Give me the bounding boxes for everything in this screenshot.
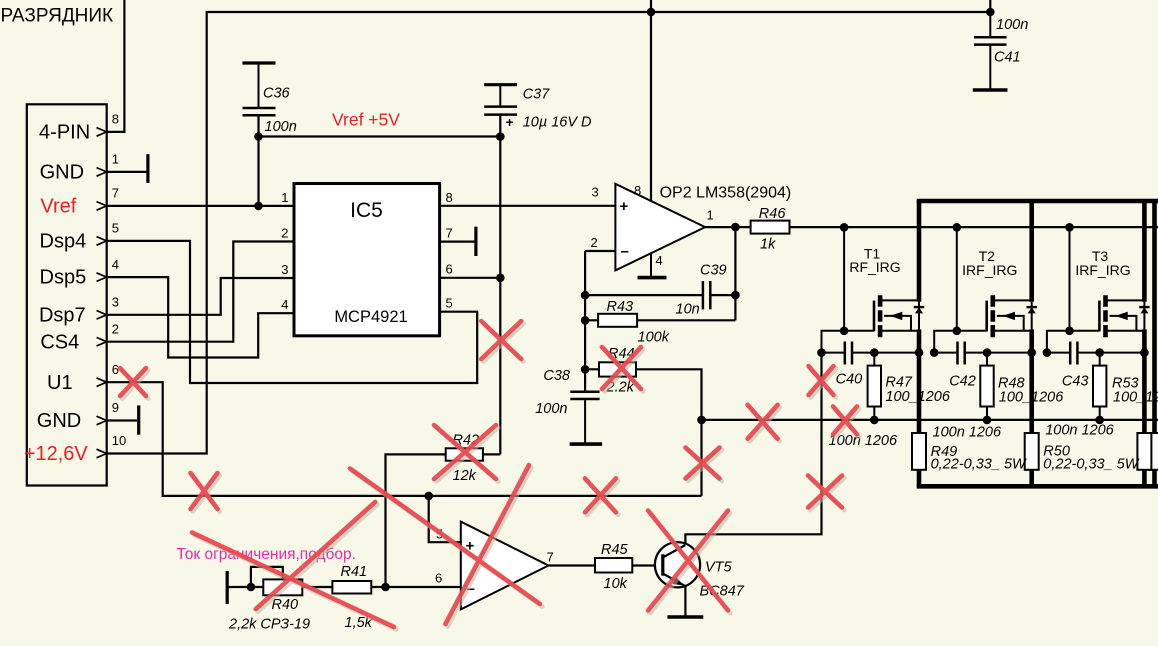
- wire GND pin1 stub: [107, 171, 147, 173]
- wire cap row left C40: [822, 352, 845, 354]
- pin arrow +12,6V: [97, 449, 107, 458]
- pin arrow 4-PIN: [97, 128, 107, 137]
- wire row 420 to output cells: [702, 419, 1158, 421]
- svg-text:10µ 16V D: 10µ 16V D: [523, 115, 592, 131]
- thick source bus bottom: [917, 484, 1158, 489]
- capacitor C38: [570, 392, 603, 444]
- svg-text:Vref: Vref: [40, 196, 76, 218]
- svg-text:100n: 100n: [996, 17, 1028, 33]
- svg-text:5: 5: [446, 296, 453, 311]
- thick bus vertical T3 upper: [1142, 201, 1147, 302]
- node gate lead junction T2: [953, 327, 962, 336]
- op-amp U2 (second half, crossed out) triangle: [461, 522, 549, 610]
- resistor R45 body: [595, 558, 632, 573]
- wire R42 right lead: [483, 453, 500, 455]
- pin arrow GND: [97, 416, 107, 425]
- svg-text:+12,6V: +12,6V: [24, 443, 89, 465]
- thick bus vertical T2 middle: [1029, 329, 1034, 433]
- svg-text:10k: 10k: [604, 576, 628, 592]
- svg-text:12k: 12k: [453, 468, 477, 484]
- thick bus vertical T1 middle: [917, 329, 922, 433]
- red X mark over transistor VT5: [648, 511, 728, 611]
- svg-text:1: 1: [707, 208, 714, 223]
- svg-text:Dsp5: Dsp5: [40, 267, 87, 289]
- wire R44 right to row 420: [636, 369, 702, 496]
- svg-text:4-PIN: 4-PIN: [39, 122, 90, 144]
- red X mark over wire row495 left: [191, 473, 218, 509]
- svg-text:GND: GND: [40, 162, 84, 184]
- node R43 left junction: [581, 316, 590, 325]
- wire R40 wiper loop: [251, 567, 283, 587]
- resistor R47 bottom lead: [873, 407, 875, 420]
- svg-text:+: +: [620, 198, 629, 215]
- svg-text:2: 2: [112, 321, 119, 336]
- svg-text:РАЗРЯДНИК: РАЗРЯДНИК: [1, 6, 114, 27]
- svg-text:C42: C42: [949, 374, 976, 390]
- wire gate lead left-down T3: [1047, 331, 1070, 353]
- wire drain lead T3: [1107, 299, 1145, 301]
- svg-text:C38: C38: [543, 368, 570, 384]
- wire body connection T2: [997, 316, 1024, 331]
- red X mark over resistor R42: [434, 425, 496, 479]
- resistor R53 top lead: [1099, 353, 1101, 366]
- red stroke over R40/R41 (ascending): [256, 502, 376, 609]
- node Vref / C36 junction: [254, 202, 263, 211]
- svg-text:CS4: CS4: [40, 331, 79, 353]
- node gate lead junction T1: [840, 327, 849, 336]
- transistor T2 channel bar: [990, 295, 995, 337]
- node U2 pin6 / R41 junction: [381, 583, 390, 592]
- svg-text:6: 6: [435, 571, 442, 586]
- svg-text:IC5: IC5: [350, 199, 383, 222]
- svg-text:C39: C39: [700, 263, 727, 279]
- wire U1 long route: [107, 382, 702, 496]
- node C39 right junction: [731, 291, 740, 300]
- svg-text:100n: 100n: [265, 119, 297, 135]
- wire cap row right C43: [1077, 352, 1144, 354]
- node R53 top junction: [1095, 348, 1104, 357]
- wire R44 left lead: [585, 368, 599, 370]
- svg-text:100n 1206: 100n 1206: [933, 425, 1002, 441]
- red X shadow: [750, 407, 780, 441]
- svg-text:1k: 1k: [760, 237, 776, 253]
- pin arrow Vref: [97, 202, 107, 211]
- node R47 bottom junction: [870, 416, 879, 425]
- wire Dsp5 to IC5 pin4: [107, 277, 294, 357]
- wire feedback column C38: [584, 251, 586, 392]
- thick bus vertical T3 middle: [1142, 329, 1147, 433]
- wire cap row right C40: [852, 352, 919, 354]
- red X mark over wire row420 right: [833, 406, 857, 434]
- svg-text:7: 7: [446, 225, 453, 240]
- svg-text:MCP4921: MCP4921: [334, 308, 407, 326]
- svg-text:100n: 100n: [535, 401, 567, 417]
- pin arrow Dsp4: [97, 237, 107, 246]
- pin arrow Dsp7: [97, 311, 107, 320]
- wire GND pin9 stub: [107, 419, 138, 421]
- capacitor C37: [484, 85, 517, 130]
- body diode T2 cathode bar: [1027, 306, 1037, 308]
- red X mark over wire riser 701: [686, 448, 720, 479]
- transistor T3 channel bar: [1103, 295, 1108, 337]
- node R44 left junction: [581, 365, 590, 374]
- red X mark over resistor R44: [602, 347, 641, 389]
- red X mark over U1 pin: [120, 368, 146, 396]
- thick bus vertical T2 lower: [1029, 470, 1034, 487]
- wire R40 left lead: [227, 586, 263, 588]
- ground OP2 pin4: [650, 253, 652, 276]
- resistor R42 body: [446, 448, 483, 460]
- resistor R49 body (power): [912, 433, 926, 470]
- resistor R47 body: [868, 366, 881, 407]
- wire cap row left C42: [934, 352, 957, 354]
- svg-text:C36: C36: [263, 86, 291, 102]
- wire Dsp4 to IC5 pin5: [107, 241, 478, 383]
- transistor T1 RF_IRG MOSFET gate plate: [873, 301, 876, 332]
- resistor R47 top lead: [873, 353, 875, 366]
- svg-text:R45: R45: [601, 542, 629, 558]
- red stroke over op-amp U2 (steep): [445, 465, 529, 624]
- svg-text:VT5: VT5: [705, 560, 733, 576]
- node C37 +5V junction: [496, 132, 505, 141]
- wire R43 left lead: [585, 319, 598, 321]
- connector J1 body: [27, 104, 107, 485]
- resistor R48 bottom lead: [986, 407, 988, 420]
- node source bus junction T3: [1140, 348, 1149, 357]
- svg-text:2: 2: [591, 235, 598, 250]
- red X shadow: [193, 476, 220, 512]
- node U2 pin5 tap junction: [424, 492, 433, 501]
- transistor T1 channel bar: [878, 295, 883, 337]
- wire top feed above C41 node: [989, 0, 991, 12]
- wire gate lead left-down T1: [822, 331, 845, 353]
- ground bar pin1: [146, 154, 149, 183]
- node C36 +5V junction: [254, 132, 263, 141]
- red X shadow: [810, 478, 844, 510]
- body diode T1 cathode bar: [914, 306, 924, 308]
- body arrow T2: [1003, 312, 1015, 320]
- VT5 emitter stroke: [663, 574, 686, 587]
- wire OP2 output to R46: [705, 226, 751, 228]
- svg-text:6: 6: [446, 262, 453, 277]
- capacitor C42 left plate: [956, 342, 959, 365]
- capacitor C39: [703, 281, 710, 309]
- body diode T1 triangle: [915, 307, 923, 313]
- wire IC5 pin8 to OP2 pin3: [440, 205, 616, 207]
- node R44/row420 junction: [697, 416, 706, 425]
- wire feedback node vertical C39/R43: [734, 227, 736, 320]
- transistor T1 gate branch wire: [843, 227, 845, 330]
- wire Vref +5V row C36 to C37: [259, 135, 501, 137]
- svg-text:+: +: [506, 114, 514, 130]
- red X shadow: [604, 350, 643, 392]
- svg-text:Dsp4: Dsp4: [40, 231, 87, 253]
- node R48 bottom junction: [983, 416, 992, 425]
- capacitor C41: [973, 12, 1008, 90]
- wire cap row right C42: [965, 352, 1032, 354]
- svg-text:2,2k СРЗ-19: 2,2k СРЗ-19: [228, 617, 310, 633]
- svg-text:GND: GND: [37, 410, 81, 432]
- wire drain lead T2: [994, 299, 1032, 301]
- body diode thin segment T2: [1031, 302, 1033, 330]
- svg-text:IRF_IRG: IRF_IRG: [962, 262, 1017, 278]
- svg-text:R40: R40: [272, 597, 299, 613]
- svg-text:8: 8: [112, 112, 119, 127]
- wire source lead T1: [881, 330, 919, 332]
- red X shadow: [688, 450, 722, 481]
- svg-text:U1: U1: [47, 372, 73, 394]
- node cap row left junction C40: [817, 348, 826, 357]
- wire OP2 pin2 to feedback column: [585, 250, 615, 252]
- svg-text:Dsp7: Dsp7: [39, 304, 86, 326]
- svg-text:R46: R46: [759, 206, 787, 222]
- svg-text:5: 5: [112, 221, 119, 236]
- wire drain lead T1: [881, 299, 919, 301]
- body diode thin segment T1: [918, 302, 920, 330]
- thick drain bus top: [917, 199, 1158, 204]
- svg-text:RF_IRG: RF_IRG: [849, 259, 900, 275]
- transistor VT5 BC847 circle: [655, 542, 700, 587]
- red stroke over op-amp U2 (descending): [350, 469, 540, 605]
- wire Vref vertical C37 down to R42: [499, 115, 501, 455]
- red X mark over wire VT5 riser upper: [809, 366, 834, 395]
- node source bus junction T1: [915, 348, 924, 357]
- red X shadow: [587, 481, 618, 515]
- svg-text:7: 7: [547, 550, 554, 565]
- ground bar OP2 pin4: [638, 276, 667, 280]
- op-amp IC5 MCP4921 body: [294, 184, 440, 336]
- node top rail / C41 junction: [986, 8, 995, 17]
- thick bus vertical right edge: [1152, 201, 1157, 486]
- resistor R44 body: [599, 362, 636, 376]
- thick bus vertical T2 upper: [1029, 201, 1034, 302]
- wire R41 to opamp U2 pin6: [371, 586, 461, 588]
- pin arrow Dsp5: [97, 273, 107, 282]
- resistor R40 body: [263, 579, 302, 595]
- pin arrow GND: [97, 168, 107, 177]
- wire VT5 collector to C40 node: [685, 353, 821, 545]
- svg-text:0,22-0,33_ 5W: 0,22-0,33_ 5W: [931, 456, 1027, 472]
- node source bus junction T2: [1027, 348, 1036, 357]
- node R48 top junction: [983, 348, 992, 357]
- svg-text:C43: C43: [1062, 374, 1089, 390]
- capacitor C43 left plate: [1069, 342, 1072, 365]
- svg-text:4: 4: [281, 297, 288, 312]
- wire source lead T2: [994, 330, 1032, 332]
- resistor R53 body: [1093, 366, 1106, 407]
- resistor R48 top lead: [986, 353, 988, 366]
- pin arrow U1: [97, 378, 107, 387]
- svg-text:1: 1: [112, 152, 119, 167]
- svg-text:3: 3: [592, 185, 599, 200]
- ground bar pin9: [137, 405, 140, 434]
- wire gate to plate T2: [957, 330, 987, 332]
- red X shadow: [436, 428, 498, 482]
- red X shadow: [122, 371, 148, 399]
- VT5 collector stroke: [663, 545, 686, 558]
- node gate rail junction T1: [840, 223, 849, 232]
- svg-text:C37: C37: [523, 87, 551, 103]
- node R47 top junction: [870, 348, 879, 357]
- svg-text:10: 10: [112, 433, 126, 448]
- red X mark over Vref vertical: [481, 321, 521, 359]
- svg-text:C40: C40: [836, 371, 863, 387]
- svg-text:8: 8: [634, 183, 641, 198]
- wire R45 to VT5 base: [632, 564, 663, 566]
- svg-text:3: 3: [281, 262, 288, 277]
- body arrow T1: [890, 312, 902, 320]
- thick bus vertical T3 lower: [1142, 470, 1147, 487]
- svg-text:100_12: 100_12: [1113, 390, 1158, 406]
- ground bar VT5 emitter: [667, 615, 703, 619]
- svg-text:1: 1: [281, 190, 288, 205]
- red X mark over wire row420: [748, 405, 778, 439]
- wire gate lead left-down T2: [934, 331, 957, 353]
- wire Vref row to IC5 pin1: [107, 205, 294, 207]
- wire C39 right lead: [710, 294, 735, 296]
- svg-text:100n 1206: 100n 1206: [1045, 422, 1114, 438]
- transistor T3 IRF_IRG MOSFET gate plate: [1098, 301, 1101, 332]
- transistor T3 gate branch wire: [1069, 227, 1071, 330]
- wire body connection T3: [1110, 316, 1137, 331]
- resistor R46 body: [751, 221, 790, 234]
- body diode thin segment T3: [1143, 302, 1145, 330]
- body diode T2 triangle: [1028, 307, 1036, 313]
- wire +12.6V rail (pin10 right, up, top rail to C41): [107, 12, 991, 454]
- node C39 left junction: [581, 291, 590, 300]
- red X mark over wire VT5 riser lower: [808, 476, 842, 508]
- resistor R50 body (power): [1025, 433, 1039, 470]
- resistor R48 body: [980, 366, 993, 407]
- body diode T3 cathode bar: [1139, 306, 1149, 308]
- transistor T2 IRF_IRG MOSFET gate plate: [985, 301, 988, 332]
- red X mark over wire row495 mid: [585, 478, 616, 512]
- wire source lead T3: [1107, 330, 1145, 332]
- VT5 base bar: [661, 554, 664, 576]
- svg-text:10n: 10n: [676, 302, 700, 318]
- red X shadow: [811, 369, 836, 398]
- wire 4-PIN pin8 riser: [107, 0, 125, 132]
- svg-text:4: 4: [112, 257, 119, 272]
- resistor R43 body: [598, 314, 637, 327]
- node R53 bottom junction: [1095, 416, 1104, 425]
- body diode T3 triangle: [1140, 307, 1148, 313]
- wire gate to plate T3: [1070, 330, 1100, 332]
- svg-text:2: 2: [281, 225, 288, 240]
- wire R40 to R41: [302, 586, 332, 588]
- svg-text:3: 3: [112, 295, 119, 310]
- svg-text:6: 6: [112, 362, 119, 377]
- svg-text:0,22-0,33_ 5W: 0,22-0,33_ 5W: [1043, 456, 1139, 472]
- wire cap row left C43: [1047, 352, 1070, 354]
- red X shadow: [484, 324, 524, 362]
- svg-text:C41: C41: [994, 50, 1021, 66]
- wire C39 left lead: [585, 294, 703, 296]
- node gate rail junction T3: [1065, 223, 1074, 232]
- svg-text:IRF_IRG: IRF_IRG: [1075, 262, 1130, 278]
- node cap row left junction C43: [1043, 348, 1052, 357]
- resistor R53 bottom lead: [1099, 407, 1101, 420]
- wire body connection T1: [884, 316, 911, 331]
- wire IC5 pin7 ground stub: [440, 241, 476, 243]
- wire R42 left lead and vertical to U2 pin6: [386, 454, 446, 587]
- capacitor C43 right plate: [1076, 342, 1079, 365]
- VT5 emitter arrow: [673, 577, 684, 586]
- wire VT5 emitter to ground: [684, 586, 686, 617]
- node OP2 out junction: [731, 223, 740, 232]
- node top rail / OP2 V+ junction: [647, 8, 656, 17]
- svg-text:100k: 100k: [638, 330, 670, 346]
- capacitor C36: [243, 63, 276, 115]
- svg-text:–: –: [621, 243, 629, 260]
- svg-text:7: 7: [112, 186, 119, 201]
- body arrow T3: [1115, 312, 1127, 320]
- red stroke shadows: [194, 468, 542, 630]
- node gate rail junction T2: [953, 223, 962, 232]
- svg-text:4: 4: [656, 253, 663, 268]
- resistor R52 body (clipped at edge): [1148, 433, 1158, 470]
- red X shadow: [650, 513, 730, 613]
- wire OP2 V+ pin8 riser to top rail: [650, 0, 652, 201]
- node gate lead junction T3: [1065, 327, 1074, 336]
- red X shadow: [835, 409, 859, 437]
- wire node A riser to opamp U2 pin5: [429, 496, 461, 542]
- wire R46 to gate rail: [790, 226, 1158, 228]
- op-amp OP2 triangle: [615, 184, 705, 271]
- node R40 wiper junction: [247, 583, 256, 592]
- wire R43 right lead: [637, 319, 735, 321]
- svg-text:100_1206: 100_1206: [999, 390, 1064, 406]
- svg-text:Vref +5V: Vref +5V: [332, 110, 400, 130]
- wire opamp U2 output to R45: [548, 564, 595, 566]
- thick bus vertical T1 lower: [917, 470, 922, 487]
- svg-text:100_1206: 100_1206: [885, 389, 950, 405]
- transistor T2 gate branch wire: [956, 227, 958, 330]
- wire gate to plate T1: [844, 330, 874, 332]
- svg-text:OP2 LM358(2904): OP2 LM358(2904): [660, 185, 792, 202]
- red stroke over R40 area (long descending): [192, 533, 394, 628]
- thick bus vertical T1 upper: [917, 201, 922, 302]
- node cap row left junction C42: [930, 348, 939, 357]
- resistor R41 body: [332, 581, 371, 594]
- capacitor C40 right plate: [851, 342, 854, 365]
- svg-text:R43: R43: [607, 299, 634, 315]
- wire Dsp7 to IC5 pin3: [107, 278, 294, 315]
- resistor R51 body (power): [1137, 433, 1151, 470]
- node IC5 pin6 Vref junction: [496, 274, 505, 283]
- wire CS4 to IC5 pin2: [107, 242, 294, 342]
- wire IC5 pin6 to Vref vertical: [440, 277, 501, 279]
- svg-text:8: 8: [446, 190, 453, 205]
- terminal bar R40 left: [226, 571, 229, 604]
- wire capacitor C36 lead down to Vref node: [257, 115, 259, 206]
- pin arrow CS4: [97, 337, 107, 346]
- svg-text:R41: R41: [341, 564, 368, 580]
- svg-text:9: 9: [112, 400, 119, 415]
- capacitor C42 right plate: [963, 342, 966, 365]
- ground bar IC5 pin7: [474, 227, 477, 256]
- capacitor C40 left plate: [844, 342, 847, 365]
